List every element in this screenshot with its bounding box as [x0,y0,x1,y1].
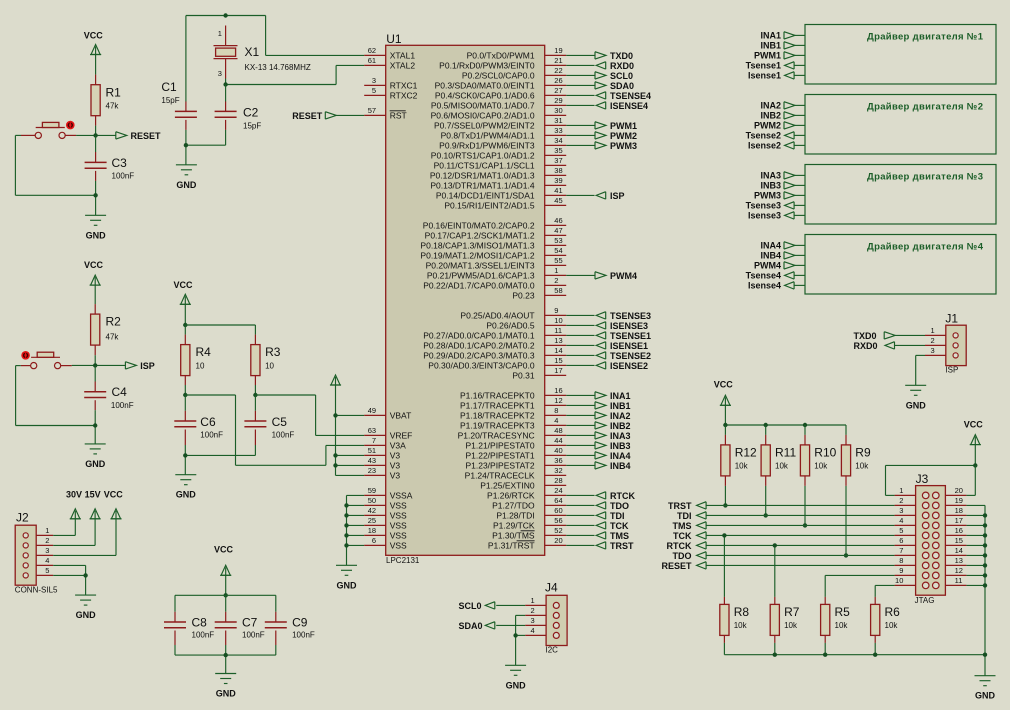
svg-text:R3: R3 [265,345,281,359]
pin 62 XTAL1 [364,46,415,61]
svg-text:10k: 10k [735,461,749,470]
svg-text:12: 12 [554,396,562,405]
node right rail junction 14 [983,553,987,557]
svg-text:64: 64 [554,496,562,505]
node PWM1 [595,121,637,131]
svg-text:TSENSE4: TSENSE4 [610,91,651,101]
node ISP terminal [125,361,154,371]
wire VREF route [255,395,364,435]
svg-text:15: 15 [955,536,963,545]
svg-text:J1: J1 [945,311,958,325]
wire J4 gnd [516,615,526,665]
node V3-51 junction [333,453,337,457]
svg-text:56: 56 [554,516,562,525]
node Tsense4 block [746,271,805,281]
svg-text:TRST: TRST [610,541,634,551]
node R7 junction [773,543,777,547]
node INA4 block [760,241,805,251]
pin 48 P1.20/TRACESYNC [458,426,567,441]
svg-text:P1.19/TRACEPKT3: P1.19/TRACEPKT3 [460,421,535,431]
pin 32 P1.24/TRACECLK [465,466,567,481]
node C4-gnd junction [93,423,97,427]
svg-text:PWM1: PWM1 [610,121,637,131]
connector J1 [925,311,966,374]
svg-text:GND: GND [85,459,106,469]
node Tsense3 block [746,201,805,211]
wire TDO [706,554,895,556]
svg-text:TRST: TRST [668,501,692,511]
svg-text:SCL0: SCL0 [610,71,633,81]
svg-text:P0.30/AD0.3/EINT3/CAP0.0: P0.30/AD0.3/EINT3/CAP0.0 [428,361,535,371]
svg-text:VCC: VCC [173,280,193,290]
svg-text:10: 10 [895,576,903,585]
wire INA1 [566,394,594,396]
svg-text:1: 1 [218,29,222,38]
svg-text:6: 6 [372,536,376,545]
svg-text:ISENSE1: ISENSE1 [610,341,648,351]
svg-text:R12: R12 [735,446,757,460]
svg-text:Tsense3: Tsense3 [746,201,781,211]
node TSENSE3 [596,311,651,321]
capacitor C7 [215,595,265,645]
svg-text:17: 17 [955,516,963,525]
power 30V [53,489,82,535]
svg-text:57: 57 [368,106,376,115]
wire R6 top [875,585,894,597]
svg-text:VSS: VSS [390,541,407,551]
svg-text:3: 3 [531,616,535,625]
svg-text:C2: C2 [243,106,259,120]
svg-text:RESET: RESET [292,111,323,121]
node INB1 block [760,41,805,51]
svg-text:36: 36 [554,456,562,465]
node right rail junction 18 [983,513,987,517]
wire VBAT [336,414,365,416]
wire J1 gnd [916,355,925,385]
svg-text:C9: C9 [292,616,308,630]
svg-text:P0.28/AD0.1/CAP0.2/MAT0.2: P0.28/AD0.1/CAP0.2/MAT0.2 [423,341,535,351]
driver block 4 [805,235,996,295]
wire RTCK [706,544,895,546]
svg-text:PWM1: PWM1 [754,51,781,61]
svg-text:P1.30/TMS: P1.30/TMS [492,531,535,541]
wire ISENSE3 [566,324,594,326]
node right rail junction 16 [983,533,987,537]
node SCL0 terminal [459,601,526,611]
svg-text:P1.26/RTCK: P1.26/RTCK [487,491,535,501]
svg-text:VSS: VSS [390,521,407,531]
svg-text:INA1: INA1 [760,31,781,41]
wire INB4 [566,464,594,466]
svg-text:GND: GND [86,230,107,240]
svg-text:24: 24 [554,486,562,495]
svg-text:P0.11/CTS1/CAP1.1/SCL1: P0.11/CTS1/CAP1.1/SCL1 [434,161,535,171]
wire ISENSE4 [566,104,594,106]
capacitor C6 [174,395,223,445]
capacitor C9 [265,612,315,645]
wire TRST [566,544,594,546]
node RESET terminal JTAG [661,561,706,571]
svg-text:I2C: I2C [546,646,559,655]
wire RTCK [566,494,594,496]
svg-text:59: 59 [368,486,376,495]
pin 53 P0.18/CAP1.3/MISO1/MAT1.3 [420,236,566,251]
svg-text:100nF: 100nF [200,430,223,439]
svg-text:P0.31: P0.31 [512,371,534,381]
crystal X1 [214,26,311,79]
wire C4 to ground [94,410,96,444]
svg-text:RXD0: RXD0 [610,61,634,71]
svg-text:5: 5 [45,566,49,575]
svg-text:23: 23 [368,466,376,475]
resistor R12 [721,425,757,486]
node C6 gnd junction [183,453,187,457]
power VCC J2 [53,489,123,555]
svg-text:10k: 10k [835,621,849,630]
wire V3A route [185,395,364,465]
pin 24 P1.26/RTCK [487,486,566,501]
svg-text:19: 19 [955,496,963,505]
svg-text:100nF: 100nF [112,172,135,181]
svg-text:Isense3: Isense3 [748,211,781,221]
pin 25 VSS [364,516,407,531]
node Isense3 block [748,211,805,221]
ground VSS [336,565,357,590]
pin 27 P0.4/SCK0/CAP0.1/AD0.6 [435,86,566,101]
node VBAT junction [333,413,337,417]
node INB1 [595,401,631,411]
wire V3 pin51 [336,454,365,456]
capacitor C4 [84,365,133,410]
svg-text:GND: GND [216,689,237,699]
power VCC VBAT [330,375,341,475]
pin 6 VSS [364,536,407,551]
pin 7 V3A [364,436,406,451]
node J2 gnd junction [83,573,87,577]
ground R2 block [85,444,106,469]
svg-text:100nF: 100nF [111,401,134,410]
svg-text:30V: 30V [66,489,82,499]
svg-text:P0.22/AD1.7/CAP0.0/MAT0.0: P0.22/AD1.7/CAP0.0/MAT0.0 [423,281,535,291]
pin 56 P1.29/TCK [493,516,566,531]
svg-text:ISENSE2: ISENSE2 [610,361,648,371]
svg-text:TSENSE1: TSENSE1 [610,331,651,341]
driver block 1 [805,25,996,85]
svg-text:10k: 10k [855,461,869,470]
svg-text:41: 41 [554,186,562,195]
wire C3 to ground [95,181,97,215]
svg-text:35: 35 [554,146,562,155]
svg-text:P0.2/SCL0/CAP0.0: P0.2/SCL0/CAP0.0 [462,71,535,81]
node TXD0 [595,51,633,61]
ground R1 block [85,215,106,240]
svg-text:P0.14/DCD1/EINT1/SDA1: P0.14/DCD1/EINT1/SDA1 [436,191,535,201]
wire TDO [566,504,594,506]
pin 47 P0.17/CAP1.2/SCK1/MAT1.2 [425,226,567,241]
pin 44 P1.21/PIPESTAT0 [465,436,566,451]
svg-text:15V: 15V [85,489,101,499]
node R8 junction [722,533,726,537]
node INB3 [595,441,631,451]
wire TMS [566,534,594,536]
node TDI terminal JTAG [677,511,706,521]
svg-text:11: 11 [554,326,562,335]
node C1-C2 junction [184,143,188,147]
svg-text:R9: R9 [855,446,871,460]
svg-text:ISP: ISP [140,361,155,371]
svg-text:P1.27/TDO: P1.27/TDO [492,501,535,511]
wire TXD0 [566,54,594,56]
svg-text:P0.3/SDA0/MAT0.0/EINT1: P0.3/SDA0/MAT0.0/EINT1 [435,81,535,91]
svg-text:RESET: RESET [131,131,162,141]
svg-text:43: 43 [368,456,376,465]
pin 60 P1.28/TDI [496,506,566,521]
svg-text:14: 14 [955,546,963,555]
wire R5 bottom [824,643,826,655]
svg-text:8: 8 [899,556,903,565]
node SCL0 [595,71,633,81]
svg-text:INA2: INA2 [610,411,631,421]
svg-text:P0.13/DTR1/MAT1.1/AD1.4: P0.13/DTR1/MAT1.1/AD1.4 [430,181,535,191]
node crystal-top junction [223,13,227,17]
wire R1 to node [95,126,97,136]
svg-text:V3A: V3A [390,441,406,451]
svg-text:RTCK: RTCK [667,541,692,551]
svg-text:J3: J3 [916,472,929,486]
svg-text:7: 7 [899,546,903,555]
svg-text:P1.20/TRACESYNC: P1.20/TRACESYNC [458,431,535,441]
svg-text:1: 1 [899,486,903,495]
svg-text:28: 28 [554,476,562,485]
svg-text:17: 17 [554,366,562,375]
pin 42 VSS [364,506,407,521]
svg-text:INB2: INB2 [760,111,781,121]
svg-text:TCK: TCK [610,521,629,531]
pin 15 P0.30/AD0.3/EINT3/CAP0.0 [428,356,566,371]
svg-text:R8: R8 [734,605,750,619]
svg-text:C7: C7 [242,616,258,630]
svg-text:16: 16 [955,526,963,535]
node ISENSE4 [596,101,648,111]
svg-text:VSSA: VSSA [390,491,413,501]
node ISENSE1 [596,341,648,351]
wire ISENSE1 [566,344,594,346]
node INB4 [595,461,631,471]
wire ISENSE2 [566,364,594,366]
pin 33 P0.8/TxD1/PWM4/AD1.1 [441,126,567,141]
svg-text:100nF: 100nF [292,630,315,639]
pin 40 P1.22/PIPESTAT1 [465,446,566,461]
node VSS junction 47 [344,523,348,527]
svg-text:19: 19 [554,46,562,55]
node PWM2 block [754,121,805,131]
resistor R10 [800,425,836,486]
svg-text:P0.5/MISO0/MAT0.1/AD0.7: P0.5/MISO0/MAT0.1/AD0.7 [431,101,535,111]
pin 59 VSSA [364,486,413,501]
power VCC JTAG [714,379,734,425]
svg-text:10: 10 [265,361,274,370]
node VSS junction 45 [344,503,348,507]
wire INB3 [566,444,594,446]
node INB2 block [760,111,805,121]
wire R5 top [825,575,894,597]
svg-text:16: 16 [554,386,562,395]
wire SCL0 [566,74,594,76]
node ISP [596,191,624,201]
svg-text:PWM2: PWM2 [754,121,781,131]
wire C6 C5 ground link [185,445,255,475]
wire J3 pin1 vcc [886,465,976,495]
svg-text:2: 2 [531,606,535,615]
resistor R4 [181,325,211,385]
node vcc rail junction R10 [803,423,807,427]
wire ISP node [72,364,126,366]
svg-text:51: 51 [368,446,376,455]
svg-text:47k: 47k [106,333,120,342]
resistor R3 [251,335,281,385]
svg-text:GND: GND [975,691,996,701]
resistor R8 [720,597,750,643]
svg-text:63: 63 [368,426,376,435]
node ISENSE3 [596,321,648,331]
svg-text:RTXC2: RTXC2 [390,91,418,101]
svg-text:33: 33 [554,126,562,135]
svg-text:32: 32 [554,466,562,475]
svg-text:P1.23/PIPESTAT2: P1.23/PIPESTAT2 [465,461,534,471]
wire R8 top [723,535,725,597]
pin 30 P0.6/MOSI0/CAP0.2/AD1.0 [431,106,567,121]
svg-text:3: 3 [218,69,222,78]
node PWM4 block [754,261,805,271]
wire button loop [15,135,95,195]
node TSENSE4 [596,91,651,101]
button SW2 [21,351,72,369]
svg-text:P0.7/SSEL0/PWM2/EINT2: P0.7/SSEL0/PWM2/EINT2 [434,121,535,131]
svg-text:INB2: INB2 [610,421,631,431]
pin 45 P0.15/RI1/EINT2/AD1.5 [444,196,566,211]
node gnd rail junction [773,653,777,657]
wire bottom gnd rail [724,655,985,676]
node R12 junction [723,503,727,507]
svg-text:P0.0/TxD0/PWM1: P0.0/TxD0/PWM1 [467,51,535,61]
svg-text:38: 38 [554,166,562,175]
wire V3 pin43 [336,464,365,466]
node TDO terminal JTAG [673,551,707,561]
capacitor C5 [244,395,294,445]
svg-text:62: 62 [368,46,376,55]
svg-text:P0.27/AD0.0/CAP0.1/MAT0.1: P0.27/AD0.0/CAP0.1/MAT0.1 [423,331,535,341]
svg-text:P0.16/EINT0/MAT0.2/CAP0.2: P0.16/EINT0/MAT0.2/CAP0.2 [423,221,535,231]
svg-text:47k: 47k [106,101,120,110]
svg-text:P0.23: P0.23 [512,291,534,301]
svg-text:C1: C1 [161,80,177,94]
ground J4 [505,665,526,690]
pin 29 P0.5/MISO0/MAT0.1/AD0.7 [431,96,566,111]
ground filter [175,475,196,500]
svg-text:53: 53 [554,236,562,245]
wire INA2 [566,414,594,416]
wire RESET [706,564,895,566]
svg-text:26: 26 [554,76,562,85]
svg-text:TMS: TMS [610,531,629,541]
svg-text:INA1: INA1 [610,391,631,401]
node RESET terminal chip [292,111,364,121]
wire decap top rail [175,595,276,612]
node decap gnd junction [224,653,228,657]
pin 43 V3 [364,456,400,471]
pin 19 P0.0/TxD0/PWM1 [467,46,567,61]
svg-text:Isense1: Isense1 [748,71,781,81]
node Isense1 block [748,71,805,81]
svg-text:P1.16/TRACEPKT0: P1.16/TRACEPKT0 [460,391,535,401]
svg-text:R7: R7 [784,605,800,619]
wire R3 node [254,385,256,395]
svg-text:PWM2: PWM2 [610,131,637,141]
svg-text:10: 10 [196,361,205,370]
svg-text:SDA0: SDA0 [610,81,634,91]
svg-text:3: 3 [899,506,903,515]
wire TDI [706,514,895,516]
wire JTAG vcc rail [725,425,846,435]
node J3 vcc junction [973,463,977,467]
wire crystal caps to ground [186,130,226,165]
svg-text:INA3: INA3 [610,431,631,441]
svg-text:55: 55 [554,256,562,265]
node R3-C5 [253,393,257,397]
svg-text:5: 5 [372,86,376,95]
svg-text:6: 6 [899,536,903,545]
svg-text:10: 10 [554,316,562,325]
svg-text:61: 61 [368,56,376,65]
svg-text:100nF: 100nF [242,630,265,639]
svg-text:TSENSE2: TSENSE2 [610,351,651,361]
svg-text:XTAL1: XTAL1 [390,51,416,61]
svg-text:INA2: INA2 [760,101,781,111]
svg-text:GND: GND [506,680,527,690]
svg-text:12: 12 [955,566,963,575]
pin 28 P1.25/EXTIN0 [480,476,566,491]
svg-text:100nF: 100nF [192,630,215,639]
svg-text:TXD0: TXD0 [610,51,633,61]
svg-text:47: 47 [554,226,562,235]
svg-text:XTAL2: XTAL2 [390,61,416,71]
wire PWM2 [566,134,594,136]
node Isense2 block [748,141,805,151]
svg-text:42: 42 [368,506,376,515]
svg-text:VCC: VCC [714,379,734,389]
node gnd rail junction [823,653,827,657]
svg-text:ISP: ISP [945,365,958,374]
pin 5 RTXC2 [364,86,417,101]
svg-text:INB3: INB3 [760,181,781,191]
driver block 2 [805,95,996,155]
wire R8 bottom [723,643,725,655]
svg-text:52: 52 [554,526,562,535]
wire INB1 [566,404,594,406]
svg-text:P0.29/AD0.2/CAP0.3/MAT0.3: P0.29/AD0.2/CAP0.3/MAT0.3 [423,351,535,361]
node SDA0 terminal [459,621,526,631]
power 15V [53,489,100,545]
node PWM3 [595,141,637,151]
svg-text:44: 44 [554,436,562,445]
pin 3 RTXC1 [364,76,417,91]
svg-text:49: 49 [368,406,376,415]
svg-text:VBAT: VBAT [390,411,412,421]
capacitor C3 [85,135,135,181]
wire R11 to signal [765,486,767,516]
pin 2 P0.22/AD1.7/CAP0.0/MAT0.0 [423,276,566,291]
svg-text:P0.18/CAP1.3/MISO1/MAT1.3: P0.18/CAP1.3/MISO1/MAT1.3 [420,241,534,251]
